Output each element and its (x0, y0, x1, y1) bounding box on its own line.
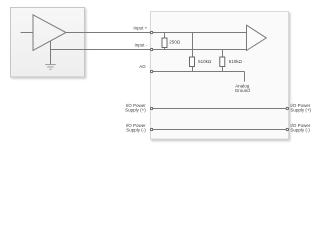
svg-text:Input -: Input - (135, 43, 148, 48)
i/o module box (right block) (151, 12, 289, 140)
wire (I/O power supply - rail) (153, 129, 286, 131)
resistor R2 510k (Input + to AG) (192, 33, 194, 58)
wire (AG line) (153, 71, 245, 73)
wire (I/O power supply + rail) (153, 108, 286, 110)
wire (AG drop to analog ground) (244, 72, 246, 82)
module box (left sensor/transmitter block) (11, 8, 85, 78)
node terminal Input + (150, 31, 152, 33)
op-amp U2 (module input amplifier triangle) (247, 25, 267, 50)
op-amp U1 (left amplifier triangle) (33, 15, 66, 51)
svg-text:Supply (-): Supply (-) (126, 127, 146, 132)
resistor R3 510k (Input - to AG) (222, 50, 224, 58)
node terminal power + left (150, 107, 152, 109)
svg-text:AG: AG (139, 64, 146, 69)
wire (Input - line from ground stem to terminal) (51, 49, 151, 51)
svg-text:Supply (-): Supply (-) (290, 127, 310, 132)
node terminal power - left (150, 128, 152, 130)
wire (amplifier common to ground) (50, 41, 52, 64)
svg-text:Input +: Input + (133, 26, 147, 31)
node terminal Input - (150, 48, 152, 50)
resistor R1 250 ohm (across inputs) (164, 33, 166, 39)
node terminal power + right (286, 107, 288, 109)
svg-text:510kΩ: 510kΩ (198, 59, 212, 64)
svg-text:510kΩ: 510kΩ (229, 59, 243, 64)
ground (45, 65, 56, 70)
wire (Input - line inside module to amplifier) (153, 49, 247, 51)
node terminal AG (150, 70, 152, 72)
wire (Input + line inside module to amplifier) (153, 32, 247, 34)
svg-text:Supply (+): Supply (+) (290, 108, 311, 113)
wire (Input + line from amplifier output to terminal) (66, 32, 150, 34)
svg-text:Ground: Ground (235, 88, 251, 93)
node terminal power - right (286, 128, 288, 130)
svg-text:250Ω: 250Ω (169, 40, 181, 45)
wire (input stub into amplifier) (21, 32, 33, 34)
svg-text:Supply (+): Supply (+) (125, 108, 146, 113)
